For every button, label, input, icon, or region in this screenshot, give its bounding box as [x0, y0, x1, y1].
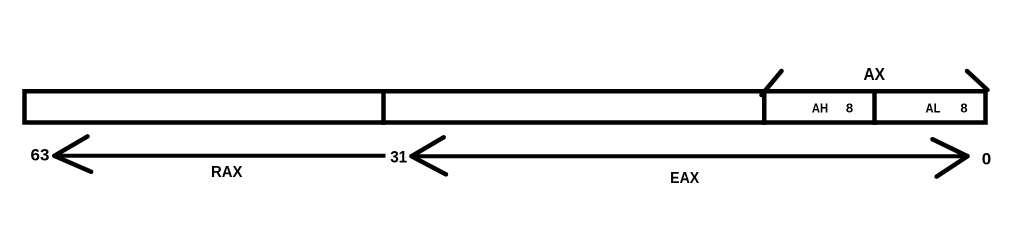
- svg-text:31: 31: [390, 148, 407, 167]
- register box RAX (64-bit outline): [25, 91, 986, 122]
- svg-text:8: 8: [960, 101, 967, 116]
- EAX left arrowhead upper barb: [412, 137, 444, 156]
- svg-text:RAX: RAX: [211, 164, 243, 181]
- svg-text:AH: AH: [812, 101, 828, 116]
- RAX arrowhead upper barb: [54, 136, 87, 155]
- divider between AH and AL (bit 8): [872, 89, 877, 125]
- EAX right arrowhead lower barb: [937, 156, 968, 176]
- divider at bit 31 (EAX boundary): [381, 89, 386, 125]
- svg-text:AX: AX: [863, 64, 885, 84]
- tick mark left of AX: [762, 71, 782, 95]
- RAX arrow shaft: [54, 154, 385, 158]
- svg-text:EAX: EAX: [670, 170, 699, 187]
- svg-text:8: 8: [846, 101, 853, 116]
- tick mark right of AX: [967, 71, 988, 90]
- divider at bit 15 (AX boundary): [762, 89, 767, 125]
- RAX arrowhead lower barb: [54, 156, 91, 172]
- svg-text:63: 63: [31, 146, 50, 165]
- EAX right arrowhead upper barb: [932, 139, 967, 156]
- EAX arrow shaft: [412, 154, 968, 158]
- EAX left arrowhead lower barb: [412, 156, 447, 174]
- svg-text:0: 0: [982, 149, 991, 168]
- svg-text:AL: AL: [926, 101, 941, 116]
